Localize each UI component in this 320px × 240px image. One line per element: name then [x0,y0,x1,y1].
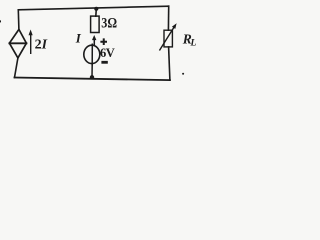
tick left edge [0,20,1,22]
svg-text:I: I [75,31,82,46]
arrow through RL [160,28,174,50]
wire middle branch upper [95,9,98,16]
wire top horizontal [18,6,168,10]
svg-text:3Ω: 3Ω [101,16,117,32]
arrowhead RL [172,23,177,29]
wire through voltage source [91,44,93,64]
arrow 2I line [30,34,32,53]
arrowhead I [92,35,96,40]
wire left branch lower [15,58,18,78]
current arrow I line [93,39,95,44]
wire middle branch lower [91,65,93,78]
label plus [100,38,107,45]
speck dot right [182,73,184,75]
resistor RL box [164,30,172,47]
voltage source V1 circle [84,45,100,63]
current source B1 diamond [9,29,26,58]
current source B1 middle bar [9,42,26,44]
wire bottom horizontal [15,78,170,81]
node top junction dot [94,7,98,11]
resistor 3ohm box [91,16,100,32]
wire right branch lower [169,47,170,80]
node bottom junction dot [90,75,94,79]
arrowhead 2I [29,30,33,36]
wire left branch upper [17,10,20,30]
svg-text:6V: 6V [100,46,115,60]
label minus [101,61,107,64]
svg-text:2I: 2I [35,37,48,52]
wire right branch upper [167,6,169,30]
svg-text:L: L [190,38,197,48]
